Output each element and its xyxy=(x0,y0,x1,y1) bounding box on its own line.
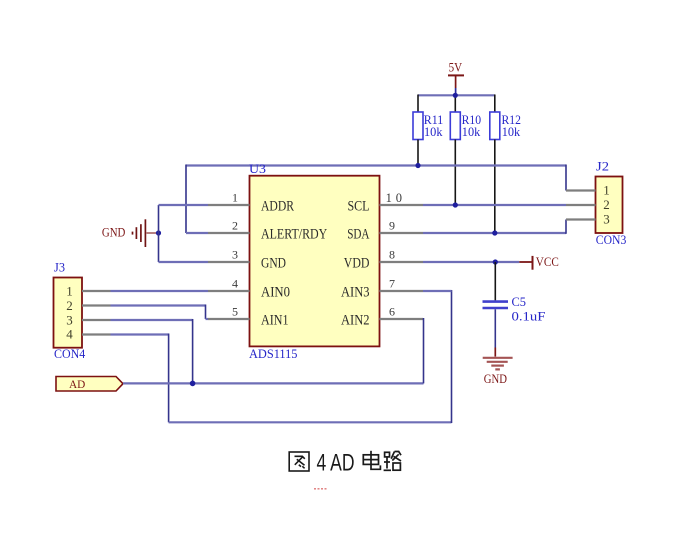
svg-text:ADS1115: ADS1115 xyxy=(249,347,298,361)
wire GND vertical xyxy=(158,205,160,262)
caption glyph 图 xyxy=(289,452,309,471)
pin 2 ALERT/RDY stub xyxy=(208,232,250,234)
wire J3.3 vertical to AD net xyxy=(192,319,194,383)
J3 pin 4 stub xyxy=(82,333,111,335)
caption underline dots xyxy=(314,488,327,490)
wire GND to pin3 GND xyxy=(159,261,209,263)
svg-text:1: 1 xyxy=(603,183,610,198)
svg-text:2: 2 xyxy=(603,197,610,212)
wire top rail to J2 pin1 vertical xyxy=(565,165,567,191)
connector J3 CON4 xyxy=(54,260,87,362)
resistor R10 xyxy=(450,112,481,140)
wire VDD net xyxy=(423,261,519,263)
wire AIN2 vertical xyxy=(423,318,425,383)
wire SDA net xyxy=(423,232,566,234)
svg-text:10k: 10k xyxy=(502,124,521,139)
svg-text:VCC: VCC xyxy=(536,254,559,269)
svg-text:SDA: SDA xyxy=(347,226,369,242)
wire bottom run to AIN3 xyxy=(169,421,452,423)
earth ground GND (bottom) xyxy=(483,348,513,386)
J2 pin 2 stub xyxy=(566,204,596,206)
wire 5V rail xyxy=(418,94,495,96)
svg-text:AIN1: AIN1 xyxy=(261,313,289,329)
pin 10 SCL stub xyxy=(380,204,424,206)
svg-text:1: 1 xyxy=(232,191,238,205)
svg-text:AIN0: AIN0 xyxy=(261,284,290,300)
junction SCL/R10 xyxy=(453,202,458,207)
J3 pin 2 stub xyxy=(82,304,111,306)
resistor R12 xyxy=(490,112,521,140)
wire AD net xyxy=(123,382,424,384)
wire R11 bottom drop xyxy=(417,140,419,166)
wire SDA to J2 pin3 vertical xyxy=(565,220,567,234)
pin 8 VDD stub xyxy=(380,261,424,263)
svg-text:CON4: CON4 xyxy=(54,347,86,361)
svg-text:10k: 10k xyxy=(424,124,443,139)
junction SDA/R12 xyxy=(492,230,497,235)
wire J3.4 vertical xyxy=(168,334,170,423)
svg-text:ALERT/RDY: ALERT/RDY xyxy=(261,226,327,242)
svg-text:5V: 5V xyxy=(449,59,463,74)
svg-text:4: 4 xyxy=(232,277,238,291)
svg-text:4 AD: 4 AD xyxy=(317,449,355,476)
svg-text:3: 3 xyxy=(603,212,610,227)
junction GND node xyxy=(156,230,161,235)
svg-text:AIN3: AIN3 xyxy=(341,284,370,300)
svg-text:3: 3 xyxy=(66,312,73,327)
wire C5 to ground xyxy=(494,309,496,347)
pin 9 SDA stub xyxy=(380,232,424,234)
svg-text:AD: AD xyxy=(69,377,86,391)
svg-text:2: 2 xyxy=(66,298,73,313)
svg-text:1: 1 xyxy=(66,284,73,299)
svg-text:AIN2: AIN2 xyxy=(341,313,370,329)
svg-text:J2: J2 xyxy=(596,159,609,174)
svg-text:7: 7 xyxy=(389,277,395,291)
wire AIN3 vertical xyxy=(451,290,453,423)
svg-text:5: 5 xyxy=(232,305,238,319)
svg-text:GND: GND xyxy=(261,255,286,271)
svg-text:CON3: CON3 xyxy=(596,233,627,247)
pin 1 ADDR stub xyxy=(208,204,250,206)
svg-text:VDD: VDD xyxy=(344,255,370,271)
svg-text:SCL: SCL xyxy=(348,198,370,214)
svg-text:ADDR: ADDR xyxy=(261,198,294,214)
svg-text:9: 9 xyxy=(389,219,395,233)
wire R10 top drop xyxy=(454,95,456,112)
wire J3.2 to AIN1 vertical xyxy=(205,305,207,320)
wire J3.3 horizontal xyxy=(111,319,193,321)
J3 pin 1 stub xyxy=(82,290,111,292)
svg-text:10k: 10k xyxy=(462,124,481,139)
wire R12 top drop xyxy=(494,95,496,113)
junction VDD/C5 xyxy=(493,259,498,264)
J2 pin 3 stub xyxy=(566,218,596,220)
pin 4 AIN0 stub xyxy=(208,290,250,292)
svg-text:0.1uF: 0.1uF xyxy=(512,309,546,323)
wire ALERT/RDY top rail xyxy=(186,164,566,166)
wire ALERT/RDY to pin 2 xyxy=(186,232,208,234)
op-amp U3 ADS1115 body xyxy=(249,161,380,361)
svg-text:GND: GND xyxy=(102,225,126,239)
svg-text:C5: C5 xyxy=(512,295,527,309)
caption glyph 电 xyxy=(363,451,380,470)
pin 5 AIN1 stub xyxy=(208,318,250,320)
power port VCC xyxy=(519,254,559,270)
svg-text:2: 2 xyxy=(232,219,238,233)
svg-text:4: 4 xyxy=(66,327,73,342)
junction AD/J3.3 xyxy=(190,381,196,387)
wire J3.2 to AIN1 horizontal xyxy=(111,304,206,306)
pin 6 AIN2 stub xyxy=(380,318,424,320)
pin 7 AIN3 stub xyxy=(380,290,424,292)
wire VDD to C5 xyxy=(494,262,496,300)
svg-text:GND: GND xyxy=(484,372,507,386)
wire SCL net xyxy=(423,204,566,206)
capacitor C5 xyxy=(483,295,546,323)
wire GND to pin1 ADDR xyxy=(159,204,209,206)
wire J3.1 to AIN0 xyxy=(111,290,209,292)
svg-text:3: 3 xyxy=(232,248,238,262)
resistor R11 xyxy=(413,112,443,140)
caption glyph 路 xyxy=(384,452,401,471)
junction 5V/R10 xyxy=(453,93,458,98)
power port 5V xyxy=(448,59,464,95)
junction R11/top rail xyxy=(415,163,420,168)
svg-text:6: 6 xyxy=(389,305,395,319)
wire J3.4 horizontal xyxy=(111,333,169,335)
J2 pin 1 stub xyxy=(566,189,596,191)
wire ALERT/RDY left vertical xyxy=(185,165,187,234)
svg-text:J3: J3 xyxy=(54,260,65,275)
net label flag AD xyxy=(56,377,123,392)
power ground GND (left) xyxy=(102,219,157,247)
wire R11 top drop xyxy=(417,95,419,113)
wire J3.2 to AIN1 short xyxy=(206,318,209,320)
pin 3 GND stub xyxy=(208,261,250,263)
wire R10 bottom drop xyxy=(454,140,456,206)
wire AIN3 horizontal xyxy=(423,290,452,292)
svg-text:U3: U3 xyxy=(249,161,266,176)
svg-text:8: 8 xyxy=(389,248,395,262)
wire R12 bottom drop xyxy=(494,140,496,234)
J3 pin 3 stub xyxy=(82,319,111,321)
connector J2 CON3 xyxy=(596,159,627,248)
